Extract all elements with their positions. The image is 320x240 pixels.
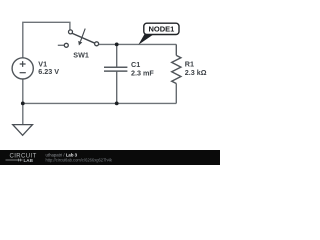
junction node at ground [21, 102, 25, 106]
svg-text:SW1: SW1 [73, 50, 89, 59]
svg-text:http://circuitlab.com/c/6266xg: http://circuitlab.com/c/6266xg627h4k [46, 158, 113, 163]
capacitor C1 [104, 67, 127, 71]
svg-text:LAB: LAB [24, 158, 34, 163]
footer logo line and LAB [6, 158, 34, 163]
wire bottom rail [23, 102, 177, 104]
node NODE1 callout [138, 23, 179, 45]
wire switch common to R1 top [97, 43, 177, 45]
junction node at C1 bottom [115, 102, 119, 106]
wire R1 top lead [175, 44, 177, 55]
svg-text:NODE1: NODE1 [148, 25, 174, 34]
svg-text:6.23 V: 6.23 V [38, 67, 59, 76]
wire open throw stub [58, 44, 64, 46]
svg-text:2.3 kΩ: 2.3 kΩ [185, 68, 207, 77]
footer bar [0, 150, 220, 165]
wire V1 bottom [22, 79, 24, 103]
wire node to C1 top [116, 44, 118, 67]
junction node at C1 top [115, 43, 119, 47]
svg-text:2.3 mF: 2.3 mF [131, 68, 154, 77]
resistor R1 [172, 55, 181, 83]
wire V1 top to switch throw1 [23, 22, 70, 57]
wire C1 bottom to bottom rail [116, 71, 118, 103]
ground [13, 103, 33, 135]
voltage source V1 [12, 58, 33, 79]
wire R1 bottom lead [175, 84, 177, 104]
switch SW1 [64, 29, 98, 48]
